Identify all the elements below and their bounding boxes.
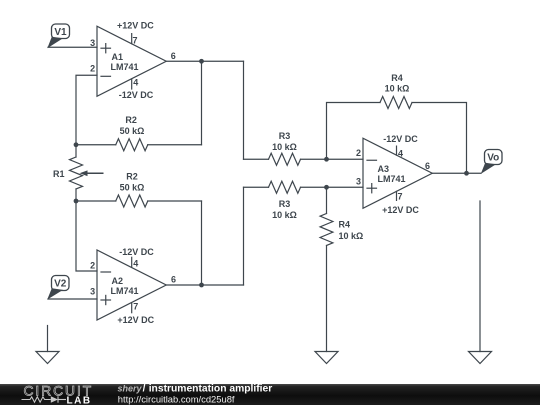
svg-text:shery: shery (118, 384, 143, 394)
svg-text:Vo: Vo (487, 153, 499, 164)
svg-text:7: 7 (398, 191, 403, 201)
svg-text:+12V DC: +12V DC (117, 315, 154, 325)
svg-text:50 kΩ: 50 kΩ (120, 126, 145, 136)
svg-text:+12V DC: +12V DC (117, 21, 154, 31)
svg-text:3: 3 (356, 176, 361, 186)
svg-text:7: 7 (133, 36, 138, 46)
svg-text:-12V DC: -12V DC (383, 134, 418, 144)
svg-text:6: 6 (171, 274, 176, 284)
svg-text:10 kΩ: 10 kΩ (385, 84, 410, 94)
svg-text:A3: A3 (378, 164, 390, 174)
svg-text:LAB: LAB (67, 395, 92, 405)
svg-text:4: 4 (398, 148, 403, 158)
svg-text:V1: V1 (54, 27, 67, 38)
svg-text:V2: V2 (54, 279, 67, 290)
svg-text:50 kΩ: 50 kΩ (120, 182, 145, 192)
svg-text:4: 4 (133, 258, 138, 268)
svg-text:R4: R4 (339, 219, 351, 229)
svg-text:LM741: LM741 (378, 174, 406, 184)
svg-text:6: 6 (171, 51, 176, 61)
svg-text:2: 2 (90, 261, 95, 271)
svg-text:10 kΩ: 10 kΩ (272, 210, 297, 220)
svg-text:R3: R3 (279, 131, 291, 141)
svg-text:10 kΩ: 10 kΩ (339, 231, 364, 241)
svg-text:A1: A1 (112, 52, 124, 62)
svg-text:R1: R1 (53, 169, 65, 179)
svg-text:LM741: LM741 (111, 286, 139, 296)
svg-text:+12V DC: +12V DC (382, 205, 419, 215)
svg-text:A2: A2 (112, 276, 124, 286)
svg-text:R4: R4 (391, 73, 403, 83)
svg-text:R2: R2 (125, 115, 137, 125)
svg-text:R2: R2 (126, 171, 138, 181)
svg-text:-12V DC: -12V DC (119, 90, 154, 100)
svg-text:LM741: LM741 (111, 62, 139, 72)
svg-text:R3: R3 (279, 199, 291, 209)
svg-text:6: 6 (425, 161, 430, 171)
svg-text:4: 4 (133, 78, 138, 88)
svg-text:2: 2 (356, 148, 361, 158)
svg-text:-12V DC: -12V DC (119, 247, 154, 257)
svg-text:7: 7 (133, 302, 138, 312)
svg-text:2: 2 (90, 64, 95, 74)
svg-text:10 kΩ: 10 kΩ (272, 142, 297, 152)
svg-text:http://circuitlab.com/cd25u8f: http://circuitlab.com/cd25u8f (118, 393, 235, 404)
svg-text:3: 3 (90, 38, 95, 48)
svg-text:3: 3 (90, 286, 95, 296)
